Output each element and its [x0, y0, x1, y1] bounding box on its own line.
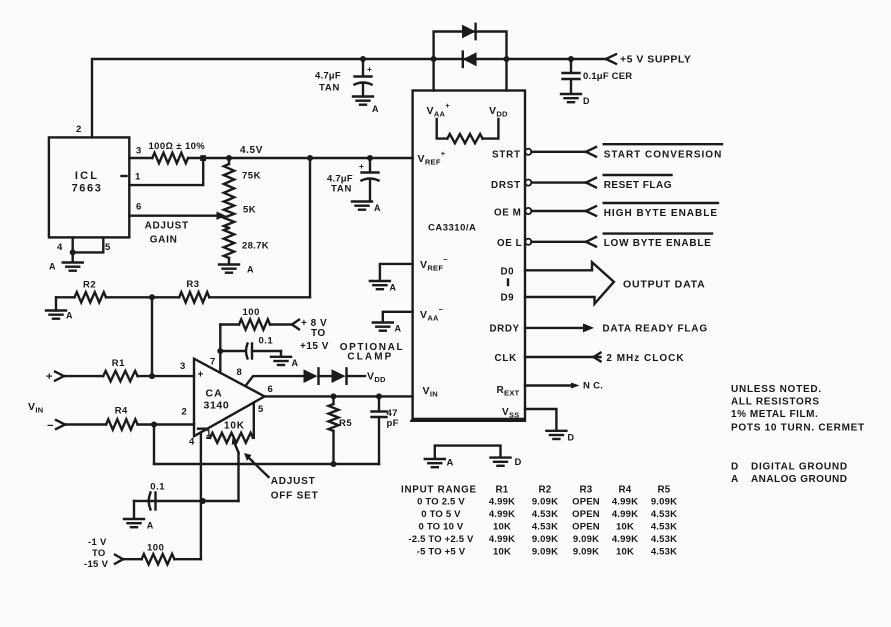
square junction pad at feedback node — [200, 155, 206, 161]
svg-text:pF: pF — [387, 418, 399, 429]
capacitor 4.7uF TAN at VREF+ plates — [362, 173, 379, 202]
pin 7 label — [210, 357, 216, 368]
pin 2 label — [182, 407, 188, 418]
wire ICL pin 1 feedback to square pad — [129, 160, 203, 185]
wire VAA- to ground — [383, 312, 413, 322]
legend D DIGITAL GROUND — [731, 461, 848, 472]
table row 0 TO 2.5 V — [417, 497, 677, 508]
pin circle STRT — [525, 149, 531, 155]
svg-text:OUTPUT DATA: OUTPUT DATA — [623, 278, 706, 290]
wire VSS to ground — [525, 409, 556, 430]
svg-text:A: A — [66, 311, 73, 321]
svg-text:4.53K: 4.53K — [651, 509, 677, 520]
label R2 — [83, 280, 96, 291]
clamp diode D3 — [304, 368, 319, 383]
ground A at VREF- — [370, 281, 390, 289]
wire - input junction down to feedback rail — [153, 425, 155, 465]
svg-text:OPEN: OPEN — [572, 522, 600, 533]
label pin VSS — [502, 407, 520, 420]
wire STRT — [532, 151, 587, 153]
svg-text:GAIN: GAIN — [150, 234, 178, 245]
junction node on + input wire — [149, 373, 155, 379]
ground A letter — [66, 311, 73, 321]
capacitor 47pF — [372, 396, 387, 464]
svg-text:100Ω ± 10%: 100Ω ± 10% — [149, 141, 206, 152]
svg-text:-5 TO +5 V: -5 TO +5 V — [417, 546, 466, 557]
ground D below 0.1uF CER — [561, 94, 581, 102]
ground A below VREF+ cap — [352, 202, 372, 210]
legend A ANALOG GROUND — [731, 474, 847, 485]
pin 4 label — [189, 437, 195, 448]
note 1% METAL FILM — [731, 409, 818, 420]
pin 3 label — [136, 146, 142, 157]
label LOW BYTE ENABLE — [604, 238, 712, 249]
junction node VREF+ rail to 4.7uF cap — [367, 155, 373, 161]
wire pin7 node to 100 resistor — [220, 323, 239, 325]
svg-text:A: A — [49, 262, 56, 272]
label VDD clamp — [367, 371, 386, 385]
svg-text:R3: R3 — [579, 484, 592, 495]
label R4 — [115, 405, 128, 416]
junction node R2/R3 — [149, 294, 155, 300]
label R5 — [339, 418, 352, 429]
svg-text:D0: D0 — [501, 267, 515, 278]
svg-text:VIN: VIN — [423, 385, 438, 399]
ground A at negative supply cap — [124, 519, 144, 527]
resistor R4 — [106, 419, 138, 429]
label 5K — [243, 205, 256, 216]
svg-text:VAA−: VAA− — [420, 305, 444, 322]
junction node pin4 / neg supply — [200, 498, 206, 504]
junction node output to 47pF — [376, 393, 382, 399]
junction node 4.5V at resistor chain — [226, 155, 232, 161]
wire 100 ohm to 4.5V node and VREF+ rail — [188, 157, 413, 159]
svg-text:4.53K: 4.53K — [651, 522, 677, 533]
svg-text:A: A — [447, 458, 454, 469]
capacitor 0.1 negative supply plates — [149, 493, 156, 510]
svg-text:6: 6 — [136, 202, 142, 213]
label START CONVERSION — [604, 149, 723, 160]
arrowhead OEL — [586, 237, 596, 247]
svg-text:OE L: OE L — [497, 238, 522, 249]
svg-text:TAN: TAN — [331, 184, 352, 195]
note ALL RESISTORS — [731, 396, 820, 407]
svg-text:9.09K: 9.09K — [573, 534, 599, 545]
wire D9 — [525, 296, 593, 298]
junction node pin4/5 — [70, 249, 76, 255]
wire D0 — [525, 269, 592, 271]
svg-text:ANALOG GROUND: ANALOG GROUND — [751, 474, 847, 485]
svg-text:START CONVERSION: START CONVERSION — [604, 149, 723, 160]
svg-text:VIN: VIN — [28, 401, 43, 415]
table header INPUT RANGE R1 R2 R3 R4 R5 — [401, 484, 671, 495]
svg-text:A: A — [147, 521, 154, 531]
ground D at VSS — [546, 431, 566, 439]
svg-text:3: 3 — [180, 361, 186, 372]
resistor 28.7K — [224, 228, 234, 258]
svg-text:REXT: REXT — [497, 385, 520, 398]
ground A at VAA- — [373, 323, 393, 331]
diode D1 (upper, anode left pointing right) — [462, 24, 476, 39]
svg-text:2: 2 — [182, 407, 188, 418]
note UNLESS NOTED — [731, 384, 822, 395]
svg-text:D: D — [515, 457, 522, 468]
wire OEM — [532, 210, 587, 212]
label pin VIN — [423, 385, 438, 399]
wire 100 resistor to pin 4 line — [174, 558, 201, 560]
ground A below ICL7663 — [63, 263, 83, 271]
junction node 0.1uF CER — [568, 56, 574, 62]
arrowhead CLK — [594, 353, 601, 362]
op-amp U1 CA3140 triangle — [194, 359, 265, 437]
IC U3 CA3310/A ADC box — [411, 91, 525, 421]
minus mark inside ICL7663 near pin 1 — [122, 175, 127, 177]
svg-text:10K: 10K — [616, 522, 634, 533]
junction node output to R5 — [331, 393, 337, 399]
svg-text:100: 100 — [243, 307, 260, 318]
svg-text:D: D — [731, 461, 739, 472]
+5 V SUPPLY label — [620, 54, 691, 66]
wire feedback bottom rail — [154, 463, 379, 465]
resistor 100 supply — [239, 319, 270, 329]
adjust offset pointer line — [244, 453, 269, 477]
label ADJUST GAIN — [145, 220, 189, 245]
svg-text:7663: 7663 — [72, 183, 103, 195]
svg-text:R4: R4 — [115, 405, 128, 416]
svg-text:4.53K: 4.53K — [532, 522, 558, 533]
svg-text:ICL: ICL — [75, 170, 99, 182]
overline START CONVERSION — [604, 143, 722, 145]
ground A letter — [390, 283, 397, 293]
ground A letter — [372, 104, 379, 114]
svg-text:DATA READY FLAG: DATA READY FLAG — [602, 324, 708, 335]
svg-text:R2: R2 — [83, 280, 96, 291]
label N.C. — [583, 381, 603, 392]
pin circle DRST — [525, 180, 531, 186]
table row -5 TO +5 V — [417, 546, 677, 557]
svg-text:A: A — [374, 203, 381, 213]
svg-text:ADJUST: ADJUST — [145, 220, 189, 231]
label 10K — [224, 421, 245, 432]
capacitor 0.1uF CER stem — [570, 59, 572, 73]
svg-text:R1: R1 — [112, 358, 125, 369]
table row 0 TO 5 V — [421, 509, 677, 520]
wire 4.5V node down to 75K — [228, 158, 230, 164]
pin circle OEL — [525, 239, 531, 245]
ground A at R2 left — [46, 297, 66, 318]
wire cap to ground A — [134, 501, 147, 519]
svg-text:N C.: N C. — [583, 381, 603, 392]
junction node VREF+ rail to R3 branch — [307, 155, 313, 161]
IC U2 ICL7663 voltage regulator box — [49, 137, 129, 237]
wire DRST — [532, 181, 587, 183]
ground A below ADC — [425, 459, 445, 467]
wire pot wiper down to negative supply node — [237, 453, 239, 502]
label pin STRT — [492, 149, 521, 160]
svg-text:ADJUST: ADJUST — [271, 476, 316, 487]
svg-text:0 TO 2.5 V: 0 TO 2.5 V — [417, 497, 465, 508]
svg-text:10K: 10K — [616, 546, 634, 557]
svg-text:DIGITAL GROUND: DIGITAL GROUND — [751, 461, 848, 472]
wire OEL — [532, 241, 587, 243]
svg-text:5: 5 — [258, 404, 264, 415]
label pin VAA- — [420, 305, 444, 322]
arrowhead pin 6 wiper — [217, 212, 227, 220]
svg-text:9.09K: 9.09K — [532, 534, 558, 545]
svg-text:UNLESS NOTED.: UNLESS NOTED. — [731, 384, 822, 395]
wire between clamp diodes — [319, 375, 332, 377]
svg-text:0 TO 5 V: 0 TO 5 V — [421, 509, 461, 520]
label pin D9 — [501, 293, 515, 304]
svg-text:HIGH BYTE ENABLE: HIGH BYTE ENABLE — [604, 208, 718, 219]
label OUTPUT DATA — [623, 278, 706, 290]
wires ICL pins 4 and 5 to ground — [73, 237, 104, 262]
arrowhead STRT — [586, 147, 596, 157]
svg-text:4.99K: 4.99K — [612, 534, 638, 545]
svg-text:RESET FLAG: RESET FLAG — [604, 180, 672, 191]
label 4.7uF TAN — [315, 71, 341, 94]
label 0.1 — [259, 336, 274, 347]
table row 0 TO 10 V — [419, 522, 678, 533]
svg-text:A: A — [395, 324, 402, 334]
ground A below supply 4.7uF cap — [353, 97, 373, 105]
label ADJUST OFF SET — [271, 476, 319, 502]
ground D letter — [568, 433, 575, 443]
svg-text:VDD: VDD — [367, 371, 386, 385]
polarity + mark of 4.7uF TAN — [367, 64, 372, 74]
wire +5V top rail from ICL7663 pin 2 to +5V SUPPLY arrow — [92, 59, 606, 137]
svg-text:CLK: CLK — [495, 353, 518, 364]
pin 5 label — [105, 242, 111, 253]
table row -2.5 TO +2.5 V — [408, 534, 677, 545]
ground A letter — [447, 458, 454, 469]
svg-text:OFF SET: OFF SET — [271, 491, 319, 502]
capacitor 0.1 negative supply wire — [147, 500, 239, 502]
label pin VREF+ — [418, 149, 446, 166]
svg-text:+: + — [359, 161, 364, 171]
internal resistor between VAA+ and VDD — [437, 119, 499, 143]
pin 3 label — [180, 361, 186, 372]
label CA3310/A — [428, 223, 476, 234]
svg-text:D: D — [568, 433, 575, 443]
svg-text:+: + — [46, 371, 53, 383]
ground D letter — [515, 457, 522, 468]
svg-text:−: − — [47, 420, 54, 432]
label 75K — [242, 171, 261, 182]
overline HIGH BYTE ENABLE — [604, 202, 718, 204]
svg-text:2: 2 — [76, 124, 82, 135]
ground A letter — [395, 324, 402, 334]
svg-text:9.09K: 9.09K — [651, 497, 677, 508]
ground A at pin7 cap — [271, 357, 291, 365]
svg-text:POTS 10 TURN. CERMET: POTS 10 TURN. CERMET — [731, 422, 865, 433]
svg-text:A: A — [247, 265, 254, 275]
label pin DRST — [491, 180, 521, 191]
pin 1 label — [206, 428, 212, 439]
wire pin 8 stub — [246, 376, 303, 385]
label pin VDD top — [489, 105, 508, 119]
svg-text:4: 4 — [189, 437, 195, 448]
wire -15V terminal to 100 resistor — [123, 558, 142, 560]
resistor 100 ohm +/-10% — [152, 153, 188, 163]
wire clamp to VDD — [347, 375, 366, 377]
junction node diode-loop right on rail — [504, 56, 510, 62]
analog/digital ground tie bracket — [435, 446, 501, 459]
arrowhead OEM — [586, 206, 596, 216]
ground D below ADC — [491, 458, 511, 466]
svg-text:OPEN: OPEN — [572, 509, 600, 520]
svg-text:5: 5 — [105, 242, 111, 253]
svg-text:28.7K: 28.7K — [242, 241, 269, 252]
label 100 ohm +/-10% — [149, 141, 206, 152]
svg-text:VAA+: VAA+ — [427, 101, 451, 118]
clamp diode D4 — [332, 368, 347, 383]
label 47 pF — [387, 408, 399, 429]
svg-text:VREF−: VREF− — [420, 255, 448, 272]
svg-text:2 MHz CLOCK: 2 MHz CLOCK — [606, 353, 684, 364]
ground A letter — [247, 265, 254, 275]
pot wiper arrow — [232, 438, 239, 452]
resistor 5K gain pot — [224, 200, 234, 229]
svg-text:CLAMP: CLAMP — [347, 352, 393, 363]
-15V terminal arrow — [115, 555, 123, 564]
wire VREF- to ground — [380, 264, 413, 281]
label pin CLK — [495, 353, 518, 364]
overline LOW BYTE ENABLE — [604, 232, 712, 234]
ground A letter — [147, 521, 154, 531]
pin circle OEM — [525, 208, 531, 214]
svg-text:DRST: DRST — [491, 180, 521, 191]
wire pin 7 supply — [219, 325, 221, 373]
wire op-amp output to ADC VIN — [265, 395, 413, 397]
svg-text:1: 1 — [135, 172, 141, 183]
label OPTIONAL CLAMP — [340, 342, 404, 363]
svg-text:R5: R5 — [339, 418, 352, 429]
svg-text:4.53K: 4.53K — [651, 546, 677, 557]
svg-text:VSS: VSS — [502, 407, 520, 420]
+5 V SUPPLY terminal arrow — [606, 54, 616, 64]
svg-text:TO: TO — [311, 328, 326, 339]
resistor R2 — [75, 292, 107, 302]
svg-text:+5 V SUPPLY: +5 V SUPPLY — [620, 54, 691, 66]
svg-text:75K: 75K — [242, 171, 261, 182]
output data bus arrow — [592, 262, 614, 304]
svg-text:9.09K: 9.09K — [532, 497, 558, 508]
svg-text:+15 V: +15 V — [300, 341, 329, 352]
arrowhead N.C. — [571, 383, 580, 389]
- input terminal — [47, 420, 65, 432]
svg-text:0.1: 0.1 — [259, 336, 274, 347]
resistor R1 — [103, 371, 137, 381]
svg-text:-2.5 TO +2.5 V: -2.5 TO +2.5 V — [408, 534, 474, 545]
wire + terminal to R1 — [64, 375, 103, 377]
svg-text:A: A — [390, 283, 397, 293]
svg-text:R1: R1 — [495, 484, 508, 495]
wire junction down to noninverting input — [151, 297, 153, 376]
svg-text:4.99K: 4.99K — [489, 509, 515, 520]
arrowhead DRDY — [583, 323, 594, 332]
svg-text:4.99K: 4.99K — [612, 509, 638, 520]
label pin OEL — [497, 238, 522, 249]
svg-text:CA: CA — [206, 388, 223, 400]
junction node diode-loop left on rail — [431, 56, 437, 62]
dash between D0 and D9 — [507, 280, 509, 286]
label 100 bottom — [147, 543, 164, 554]
resistor 75K — [224, 164, 234, 200]
wire 0.1 cap to ground — [252, 351, 281, 357]
pin 2 label of ICL7663 — [76, 124, 82, 135]
capacitor 4.7uF TAN at VREF+ stem — [369, 158, 371, 172]
label pin D0 — [501, 267, 515, 278]
junction node pin 7 decoupling — [217, 348, 223, 354]
+8V terminal arrow — [292, 320, 299, 330]
pin 6 label — [136, 202, 142, 213]
svg-text:4.7μF: 4.7μF — [315, 71, 341, 82]
capacitor 4.7uF TAN plates — [355, 77, 372, 97]
pin 5 label — [258, 404, 264, 415]
capacitor 0.1 plates — [246, 344, 252, 359]
junction node supply cap — [360, 56, 366, 62]
junction node R5 bottom — [331, 461, 337, 467]
junction node on - input wire — [151, 422, 157, 428]
label CA 3140 — [204, 388, 230, 412]
label R1 — [112, 358, 125, 369]
svg-text:D: D — [583, 96, 590, 106]
capacitor 4.7uF TAN (supply bypass) stem — [362, 59, 364, 76]
ground D letter — [583, 96, 590, 106]
svg-text:A: A — [292, 358, 299, 368]
svg-text:5K: 5K — [243, 205, 256, 216]
wire - terminal to R4 — [65, 423, 106, 425]
svg-text:OE M: OE M — [494, 208, 521, 219]
resistor R3 — [152, 292, 310, 302]
pin 4 label — [57, 242, 63, 253]
ground A below resistor chain — [219, 265, 239, 273]
label RESET FLAG — [604, 180, 672, 191]
wire CLK — [525, 356, 601, 358]
label pin OEM — [494, 208, 521, 219]
polarity + mark — [359, 161, 364, 171]
arrowhead DRST — [586, 178, 596, 188]
svg-text:-1 V: -1 V — [88, 537, 107, 548]
label HIGH BYTE ENABLE — [604, 208, 718, 219]
overline RESET FLAG — [604, 174, 672, 176]
svg-text:DRDY: DRDY — [490, 324, 520, 335]
svg-text:4: 4 — [57, 242, 63, 253]
wire DRDY — [525, 327, 584, 329]
capacitor 0.1 at pin 7 wire — [220, 350, 244, 352]
svg-text:9.09K: 9.09K — [573, 546, 599, 557]
note POTS 10 TURN CERMET — [731, 422, 865, 433]
wire REXT to N.C. — [525, 384, 574, 386]
wire R4 to op-amp pin 2 — [138, 423, 194, 425]
svg-text:10K: 10K — [493, 522, 511, 533]
ground A letter left — [49, 262, 56, 272]
svg-text:TAN: TAN — [319, 83, 340, 94]
label 0 1 — [150, 482, 165, 493]
potentiometer 10K offset — [208, 433, 254, 443]
label pin VAA+ — [427, 101, 451, 118]
wire 28.7K to ground — [228, 258, 230, 264]
svg-text:7: 7 — [210, 357, 216, 368]
svg-text:+: + — [198, 370, 204, 381]
label +8V TO +15V — [300, 318, 329, 352]
svg-text:3140: 3140 — [204, 400, 230, 412]
svg-text:10K: 10K — [224, 421, 245, 432]
wire 100 resistor to +8V terminal — [270, 323, 292, 325]
svg-text:8: 8 — [237, 367, 243, 378]
diode loop top wire between VAA+ and VDD verticals — [434, 32, 507, 91]
